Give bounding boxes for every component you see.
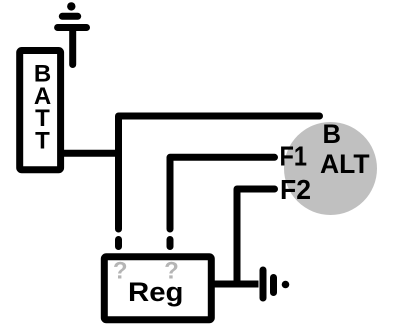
svg-text:B: B xyxy=(323,119,342,149)
wire: F2 down to ground wire xyxy=(237,189,275,284)
regulator Reg box xyxy=(104,257,211,320)
wire stub into regulator terminal 2 xyxy=(167,240,174,247)
ground GND1 (top, battery ground) xyxy=(58,2,87,64)
wire: F1 to regulator xyxy=(170,157,275,229)
alternator ALT body xyxy=(284,122,377,215)
battery BATT box xyxy=(20,51,61,170)
svg-text:F2: F2 xyxy=(280,174,311,205)
wire: node up and right to alternator B terminal xyxy=(119,116,320,229)
wire: BATT positive to node xyxy=(61,150,119,157)
ground GND2 (bottom right) xyxy=(263,270,289,298)
svg-text:ALT: ALT xyxy=(320,149,370,179)
svg-text:F1: F1 xyxy=(280,141,308,172)
wire stub into regulator terminal 1 xyxy=(115,240,122,247)
svg-text:?: ? xyxy=(113,257,128,284)
svg-text:Reg: Reg xyxy=(128,277,184,307)
svg-text:T: T xyxy=(35,127,50,154)
wire: regulator to ground xyxy=(214,281,259,288)
battery BATT label xyxy=(34,61,51,155)
